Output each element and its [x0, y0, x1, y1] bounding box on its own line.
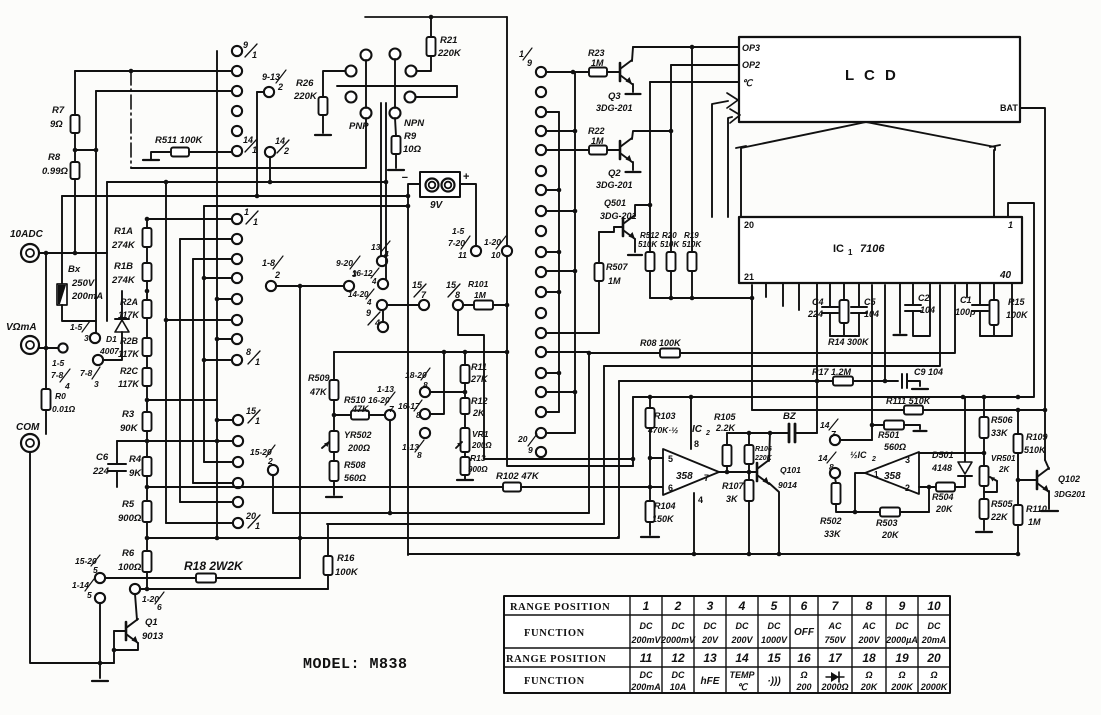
svg-text:Bx: Bx	[68, 264, 81, 275]
svg-text:DC: DC	[736, 621, 749, 631]
resistor R21 220K	[430, 17, 432, 37]
svg-text:560Ω: 560Ω	[344, 473, 366, 483]
svg-text:BZ: BZ	[783, 411, 797, 422]
node bus y182 end	[384, 180, 389, 185]
svg-text:5: 5	[93, 565, 98, 575]
svg-text:1-5: 1-5	[52, 358, 65, 368]
contact a5	[232, 294, 242, 304]
svg-text:L C D: L C D	[845, 67, 899, 84]
svg-text:20V: 20V	[701, 635, 719, 645]
svg-text:R2A: R2A	[120, 297, 138, 307]
contact a4	[232, 273, 242, 283]
wire bus y538	[147, 537, 619, 539]
wire 15-20/2 drop	[272, 475, 274, 513]
svg-text:R505: R505	[991, 499, 1014, 509]
resistor R106 220K	[748, 433, 750, 445]
svg-text:D501: D501	[932, 450, 954, 460]
op-amp IC2a 358	[663, 449, 719, 495]
IC1 7106 block	[739, 217, 1022, 283]
contact 1-5 7-20/11	[471, 246, 481, 256]
op-amp IC2b 358	[865, 452, 919, 494]
svg-text:R15: R15	[1008, 297, 1026, 307]
potentiometer VR501 2K	[980, 466, 989, 486]
contact 15/1	[233, 415, 243, 425]
capacitor C4 224	[829, 283, 831, 307]
svg-text:2: 2	[674, 599, 682, 613]
svg-text:117K: 117K	[118, 379, 140, 389]
svg-text:1: 1	[255, 416, 260, 426]
svg-text:10A: 10A	[670, 682, 687, 692]
wire pin stub x967	[966, 283, 968, 297]
wire stubs column C	[546, 71, 589, 73]
svg-text:+: +	[463, 171, 469, 183]
wire 15/8 drop	[458, 310, 484, 459]
svg-text:OP2: OP2	[742, 60, 760, 70]
svg-text:DC: DC	[704, 621, 717, 631]
contact c9	[536, 247, 546, 257]
svg-text:3K: 3K	[726, 494, 739, 504]
wire bus y168 to PNP pin	[131, 167, 365, 169]
svg-text:9: 9	[899, 599, 906, 613]
fuse Bx 250V 200mA	[61, 196, 63, 284]
potentiometer VR1 200Ω	[461, 428, 470, 452]
resistor R16 100K	[327, 524, 329, 556]
svg-text:13: 13	[703, 651, 717, 665]
svg-text:NPN: NPN	[404, 118, 425, 129]
svg-text:R6: R6	[122, 548, 135, 559]
svg-text:1: 1	[255, 521, 260, 531]
svg-text:1-8: 1-8	[262, 258, 275, 268]
transistor Q1 9013	[135, 594, 137, 620]
resistor R502 33K	[835, 478, 836, 483]
node chain R1B-R2A	[145, 289, 150, 294]
transistor Q501 3DG-201	[622, 218, 625, 236]
svg-text:1M: 1M	[591, 136, 604, 146]
contact 9-13/2	[264, 87, 274, 97]
svg-text:11: 11	[458, 250, 467, 260]
svg-text:2: 2	[871, 456, 876, 463]
svg-text:R111 510K: R111 510K	[886, 396, 932, 406]
svg-text:RANGE POSITION: RANGE POSITION	[506, 654, 606, 665]
wire C line	[650, 81, 739, 83]
svg-text:274K: 274K	[111, 240, 136, 251]
LCD backplane arrow 1	[712, 101, 728, 217]
contact a10	[233, 436, 243, 446]
wire bus y182	[107, 181, 386, 183]
resistor R1A 274K	[146, 219, 148, 228]
svg-text:2.2K: 2.2K	[715, 423, 737, 433]
svg-text:10: 10	[491, 250, 501, 260]
svg-text:200: 200	[795, 682, 811, 692]
socket pin top-left	[361, 50, 372, 61]
wire bus y381 R17 line	[619, 380, 833, 382]
svg-text:BAT: BAT	[1000, 103, 1018, 113]
svg-text:DC: DC	[768, 621, 781, 631]
wire vertical x575	[574, 72, 576, 433]
svg-text:R08 100K: R08 100K	[640, 338, 682, 348]
svg-text:7-8: 7-8	[51, 370, 64, 380]
node chain tap y538	[145, 536, 150, 541]
svg-text:14: 14	[275, 136, 285, 146]
IC bottom pin stubs	[765, 283, 767, 297]
svg-text:3DG-201: 3DG-201	[600, 211, 637, 221]
transistor Q102 3DG201	[1018, 479, 1037, 481]
svg-text:5: 5	[771, 599, 778, 613]
wire output pin7	[719, 471, 757, 473]
wire socket rail y86	[337, 85, 457, 87]
socket pin NPN	[390, 108, 401, 119]
wire pin21 riser	[751, 285, 753, 410]
svg-text:DC: DC	[896, 621, 909, 631]
svg-text:4: 4	[371, 277, 377, 286]
svg-text:14: 14	[818, 453, 828, 463]
svg-text:250V: 250V	[71, 278, 95, 289]
wire chain tap to contact y441	[117, 440, 233, 442]
svg-text:1: 1	[519, 49, 524, 59]
wire x507 top	[506, 17, 508, 246]
svg-text:1-5: 1-5	[70, 322, 83, 332]
wire riser x619	[618, 381, 619, 537]
svg-text:15: 15	[767, 651, 781, 665]
svg-text:13: 13	[371, 242, 381, 252]
svg-text:FUNCTION: FUNCTION	[524, 676, 585, 687]
terminal 10ADC	[21, 244, 39, 262]
terminal VΩmA	[21, 336, 39, 354]
svg-text:VR501: VR501	[991, 454, 1016, 463]
socket pin mid-left lower	[346, 92, 357, 103]
wire bus y196	[62, 195, 408, 197]
contact 14-20/4	[377, 300, 387, 310]
svg-text:40: 40	[999, 270, 1012, 281]
svg-text:VΩmA: VΩmA	[6, 322, 37, 333]
svg-text:R105: R105	[714, 412, 737, 422]
svg-text:R26: R26	[296, 78, 314, 89]
svg-text:C4: C4	[812, 297, 824, 307]
svg-text:47K: 47K	[351, 404, 370, 414]
svg-text:90K: 90K	[120, 423, 139, 434]
svg-text:9-20: 9-20	[336, 258, 353, 268]
svg-text:18-20: 18-20	[405, 370, 427, 380]
contact 9-20/3	[344, 281, 354, 291]
svg-text:6: 6	[668, 483, 673, 493]
resistor R23 1M	[546, 71, 589, 73]
svg-text:8: 8	[829, 462, 834, 472]
svg-text:2000Ω: 2000Ω	[820, 682, 848, 692]
resistor R501 560Ω	[872, 424, 884, 426]
svg-text:R19: R19	[684, 231, 699, 240]
contact row2	[232, 66, 242, 76]
contact 1-14/5	[95, 593, 105, 603]
contact 1-8/2	[266, 281, 276, 291]
svg-text:2: 2	[283, 146, 289, 156]
svg-text:R508: R508	[344, 460, 366, 470]
svg-text:3: 3	[707, 599, 714, 613]
node chain tap y487	[145, 485, 150, 490]
svg-text:R23: R23	[588, 48, 605, 58]
wire to contact 13/4	[380, 103, 382, 256]
resistor R13 900Ω	[461, 457, 470, 475]
resistor R504 20K	[929, 486, 936, 488]
svg-text:R104: R104	[654, 501, 676, 511]
svg-text:DC: DC	[640, 621, 653, 631]
buzzer BZ	[786, 432, 788, 434]
svg-text:Ω: Ω	[799, 670, 807, 680]
svg-text:R1B: R1B	[114, 261, 133, 272]
svg-text:C1: C1	[960, 295, 972, 305]
svg-text:·))): ·)))	[767, 676, 781, 687]
contact c2	[536, 107, 546, 117]
contact c11	[536, 287, 546, 297]
svg-text:100K: 100K	[1006, 310, 1029, 320]
svg-text:510K: 510K	[682, 240, 702, 249]
wire pin stub x900	[899, 283, 901, 333]
svg-text:470K·½: 470K·½	[647, 425, 678, 435]
svg-text:R512: R512	[640, 231, 660, 240]
wire riser x589	[588, 353, 590, 513]
diode symbol in table cell 17	[826, 676, 844, 678]
svg-text:2000mV: 2000mV	[660, 635, 696, 645]
node R11-R12 18-20/8 tap	[463, 390, 468, 395]
transistor Q2 3DG-201	[619, 141, 622, 159]
contact c17	[536, 407, 546, 417]
battery 9V	[420, 172, 460, 197]
socket pin PNP	[361, 108, 372, 119]
svg-text:200Ω: 200Ω	[471, 441, 492, 450]
LCD fanout right diagonal	[866, 122, 995, 150]
svg-text:0.01Ω: 0.01Ω	[52, 404, 76, 414]
wire VΩmA to R0 chain	[45, 253, 47, 389]
contact 1-20/6	[130, 584, 140, 594]
svg-text:AC: AC	[862, 621, 876, 631]
svg-text:150K: 150K	[652, 514, 675, 524]
svg-text:510K: 510K	[1024, 445, 1047, 455]
contact 18-20/8	[420, 387, 430, 397]
resistor R2C 117K	[143, 368, 152, 386]
contact c18	[536, 428, 546, 438]
svg-text:YR502: YR502	[344, 430, 372, 440]
contact row5	[232, 126, 242, 136]
wire battery plus	[460, 184, 476, 246]
svg-text:−: −	[402, 172, 408, 184]
svg-text:100p: 100p	[955, 307, 976, 317]
resistor R101 1M	[463, 304, 474, 306]
svg-text:16: 16	[797, 651, 811, 665]
contact c3	[536, 126, 546, 136]
resistor R2A 117K	[143, 300, 152, 318]
svg-text:R9: R9	[404, 131, 417, 142]
resistor R14 300K	[843, 283, 845, 300]
svg-text:20: 20	[744, 220, 754, 230]
capacitor C9 104	[885, 380, 898, 382]
diode D1 4007	[121, 291, 123, 319]
wire BAT line	[1020, 108, 1045, 460]
wire riser x604	[603, 366, 605, 524]
resistor R19 510K	[691, 47, 693, 252]
svg-text:2K: 2K	[998, 465, 1010, 474]
svg-text:22K: 22K	[990, 512, 1009, 522]
contact 1-20/10	[502, 246, 512, 256]
svg-text:1: 1	[253, 217, 258, 227]
resistor R0 0.01Ω	[42, 389, 51, 410]
svg-text:20K: 20K	[860, 682, 879, 692]
resistor R3 90K	[143, 412, 152, 431]
svg-text:19: 19	[895, 651, 909, 665]
svg-text:5: 5	[87, 590, 92, 600]
wire pin5 stub	[650, 457, 663, 459]
svg-text:1: 1	[252, 50, 257, 60]
contact a2	[232, 234, 242, 244]
svg-text:200V: 200V	[857, 635, 880, 645]
contact 15/8	[453, 300, 463, 310]
LCD block	[739, 37, 1020, 122]
svg-text:8: 8	[416, 410, 421, 420]
svg-text:9013: 9013	[142, 631, 164, 642]
terminal COM	[21, 434, 39, 452]
svg-text:9K: 9K	[129, 468, 142, 479]
wire bus y554	[408, 553, 1018, 555]
resistor R508 560Ω	[330, 461, 339, 481]
contact 14/2	[265, 147, 275, 157]
svg-text:Q1: Q1	[145, 617, 158, 628]
svg-text:1-5: 1-5	[452, 226, 465, 236]
svg-text:R4: R4	[129, 454, 142, 465]
svg-text:R14 300K: R14 300K	[828, 337, 870, 347]
LCD fanout left diagonal	[741, 122, 866, 217]
wire to contact 16-12/4	[385, 103, 387, 279]
resistor R103 470K	[649, 397, 651, 408]
svg-text:3: 3	[94, 379, 99, 389]
svg-text:TEMP: TEMP	[729, 670, 755, 680]
svg-text:D1: D1	[106, 334, 117, 344]
resistor R26 220K	[323, 71, 345, 97]
contact row4	[232, 106, 242, 116]
svg-text:100K: 100K	[335, 567, 359, 578]
wire bus y524	[327, 523, 604, 525]
svg-text:1: 1	[848, 248, 853, 257]
svg-text:20mA: 20mA	[921, 635, 947, 645]
svg-text:104: 104	[920, 305, 935, 315]
svg-text:2: 2	[705, 430, 710, 437]
resistor R503 20K	[855, 511, 880, 513]
wire vertical x300	[299, 286, 301, 578]
wire bus y71	[75, 70, 232, 72]
wire riser x633	[632, 397, 634, 466]
contact c1	[536, 87, 546, 97]
contact 14/1	[232, 146, 242, 156]
svg-text:8: 8	[694, 439, 699, 449]
contact a6	[232, 315, 242, 325]
wire 10ADC node	[39, 252, 107, 254]
wire IC pin x885	[884, 285, 886, 381]
svg-text:200mA: 200mA	[71, 291, 103, 302]
contact c15	[536, 368, 546, 378]
resistor R18 2W2K	[105, 577, 196, 579]
svg-text:Q102: Q102	[1058, 474, 1080, 484]
wire vertical x559	[558, 112, 560, 412]
svg-text:14: 14	[243, 135, 253, 145]
svg-text:R110: R110	[1026, 504, 1047, 514]
svg-text:1: 1	[255, 357, 260, 367]
wire COM down	[30, 452, 114, 663]
svg-text:R0: R0	[55, 391, 66, 401]
resistor R505 22K	[983, 486, 985, 499]
resistor R1B 274K	[143, 263, 152, 281]
resistor R7 9Ω	[74, 71, 76, 115]
node R510 tap	[332, 413, 337, 418]
svg-text:2: 2	[274, 270, 280, 280]
svg-text:R22: R22	[588, 126, 605, 136]
svg-text:Q3: Q3	[608, 91, 621, 102]
capacitor C2 104	[912, 283, 914, 305]
wire 14/7 stub	[840, 439, 872, 441]
capacitor C1 100p	[979, 283, 981, 305]
wire chain top	[147, 218, 232, 220]
svg-text:18: 18	[862, 651, 876, 665]
svg-text:17: 17	[828, 651, 843, 665]
socket pin top-right	[390, 49, 401, 60]
contact 1/1	[232, 214, 242, 224]
svg-text:1000V: 1000V	[761, 635, 788, 645]
wire top rail	[365, 16, 507, 18]
resistor R110 1M	[1014, 505, 1023, 525]
svg-text:3DG-201: 3DG-201	[596, 103, 633, 113]
contact 7-8/3	[93, 355, 103, 365]
wire pin4 down	[693, 493, 695, 554]
wire C1-R15 bus	[980, 283, 1012, 336]
svg-text:8: 8	[246, 347, 251, 357]
svg-text:R5: R5	[122, 499, 135, 510]
svg-text:0.99Ω: 0.99Ω	[42, 166, 68, 177]
svg-text:8: 8	[866, 599, 873, 613]
svg-text:33K: 33K	[991, 428, 1009, 438]
svg-text:4: 4	[698, 495, 703, 505]
svg-text:6: 6	[801, 599, 808, 613]
resistor R111 510K	[904, 406, 923, 415]
svg-text:VR1: VR1	[472, 429, 489, 439]
svg-text:R12: R12	[471, 396, 488, 406]
resistor R512 510K	[649, 82, 651, 252]
resistor R20 510K	[670, 65, 672, 252]
contact c19	[536, 447, 546, 457]
node chain tap y400	[145, 398, 150, 403]
LCD backplane arrow 2	[728, 117, 732, 217]
svg-text:8: 8	[417, 450, 422, 460]
svg-text:4: 4	[366, 298, 372, 307]
resistor R507 1M	[614, 226, 623, 228]
resistor R11 27K	[464, 352, 466, 365]
wire socket column right	[394, 59, 396, 108]
wire 14-20/4 to 15/7	[387, 304, 419, 306]
wire vertical x180	[179, 239, 181, 502]
resistor R12 2K	[461, 398, 470, 414]
contact c6	[536, 185, 546, 195]
svg-text:R103: R103	[654, 411, 676, 421]
contact 20/1	[233, 518, 243, 528]
svg-text:9Ω: 9Ω	[50, 119, 63, 130]
svg-text:1M: 1M	[1028, 517, 1041, 527]
contact 16-17/8	[420, 409, 430, 419]
svg-text:9: 9	[243, 40, 248, 50]
svg-text:R507: R507	[606, 262, 629, 272]
contact 1-5/3	[90, 333, 100, 343]
svg-text:3: 3	[905, 455, 910, 465]
svg-text:OFF: OFF	[794, 627, 815, 638]
wire R7 tap vertical	[95, 91, 97, 333]
svg-text:10Ω: 10Ω	[403, 144, 422, 155]
contact c8	[536, 226, 546, 236]
svg-text:1: 1	[1008, 220, 1013, 230]
wire R501 riser x872	[871, 285, 873, 440]
